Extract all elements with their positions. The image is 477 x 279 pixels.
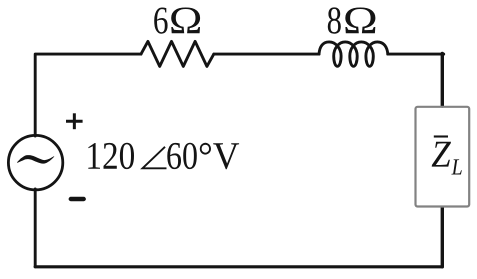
label 120 bbox=[88, 143, 134, 169]
resistor R 6-ohm zigzag bbox=[141, 41, 214, 66]
label degree V bbox=[200, 143, 239, 170]
wire load bottom to corner bbox=[441, 207, 444, 266]
plus polarity sign bbox=[66, 113, 83, 129]
AC source circle bbox=[8, 135, 62, 189]
Z overbar bbox=[434, 135, 448, 137]
angle symbol bbox=[143, 147, 167, 169]
wire source bottom to bottom-left corner bbox=[34, 189, 37, 267]
inductor L 8-ohm loops bbox=[319, 42, 388, 66]
wire top-right corner down to load box bbox=[441, 54, 444, 107]
wire inductor to top-right corner bbox=[388, 53, 444, 56]
label 60 bbox=[167, 143, 197, 169]
label L subscript italic bbox=[451, 159, 461, 174]
wire between resistor and inductor bbox=[214, 53, 319, 56]
wire left-top: from source up and across to resistor bbox=[35, 54, 141, 136]
label 8 ohm bbox=[328, 7, 341, 33]
label 6 ohm bbox=[154, 8, 167, 34]
bottom return wire bbox=[35, 265, 442, 268]
minus polarity sign bbox=[71, 197, 84, 201]
load impedance box bbox=[416, 107, 470, 207]
label Z italic bbox=[432, 142, 451, 167]
sine tilde inside source bbox=[17, 155, 54, 164]
